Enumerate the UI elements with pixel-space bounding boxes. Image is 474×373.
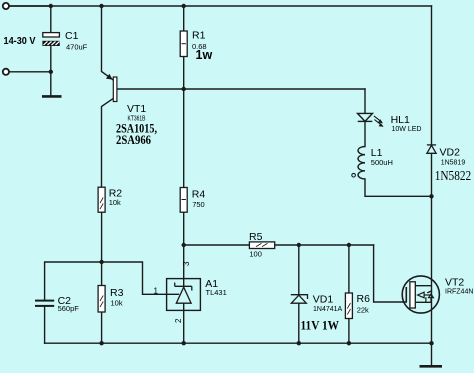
transistor VT1 (PNP) — [106, 74, 117, 102]
resistor R5 — [249, 242, 274, 249]
wire R3 top lead — [101, 262, 103, 286]
node R6 top — [347, 243, 351, 247]
LED arrows — [374, 116, 384, 127]
wire node to A1 ref pin staircase — [102, 262, 179, 294]
svg-text:22k: 22k — [357, 305, 369, 314]
wire gate drop — [374, 245, 407, 302]
wire R2 bottom lead — [101, 212, 103, 262]
wire R1 top lead — [183, 6, 185, 31]
svg-text:10k: 10k — [109, 198, 121, 207]
svg-text:VT1: VT1 — [127, 103, 146, 115]
ground (bottom right) — [420, 365, 443, 368]
wire VT1 collector lead — [102, 98, 114, 187]
node L1/VD2 — [429, 194, 433, 198]
svg-text:500uH: 500uH — [371, 158, 393, 167]
wire bottom rail — [45, 342, 432, 344]
node VT2 source bottom — [429, 341, 433, 345]
svg-text:R5: R5 — [249, 231, 263, 243]
terminal + input top — [3, 3, 9, 9]
node A1 bottom — [182, 341, 186, 345]
wire VD1 bottom lead — [298, 303, 300, 343]
node C1 top — [49, 4, 53, 8]
node VD1 bottom — [297, 341, 301, 345]
L1 winding start dot — [352, 173, 356, 177]
svg-text:TL431: TL431 — [206, 288, 227, 297]
node C1 bottom terminal — [49, 70, 53, 74]
wire R5 to gate corner — [275, 244, 374, 246]
inductor L1 — [358, 147, 365, 179]
capacitor C1 — [43, 33, 60, 46]
wire node to A1 cathode — [183, 245, 185, 286]
svg-text:1N5819: 1N5819 — [441, 159, 466, 166]
wire VT1 base line — [117, 88, 365, 90]
svg-text:750: 750 — [192, 200, 205, 209]
svg-text:R3: R3 — [110, 287, 124, 299]
svg-text:100: 100 — [249, 249, 262, 258]
wire bottom terminal to C1 line — [9, 71, 51, 73]
svg-text:14-30 V: 14-30 V — [4, 35, 36, 47]
svg-text:IRFZ44N: IRFZ44N — [445, 288, 473, 295]
wire ground stub bottom right — [431, 343, 433, 365]
wire R1 bottom lead — [183, 57, 185, 90]
svg-text:560pF: 560pF — [58, 304, 80, 313]
wire node to C2 — [45, 262, 102, 300]
wire VT1 emitter lead — [102, 6, 114, 80]
wire R6 top lead — [348, 245, 350, 293]
wire R3 bottom lead — [101, 312, 103, 343]
node R3 bottom — [99, 341, 103, 345]
svg-text:R1: R1 — [192, 30, 206, 42]
svg-text:1: 1 — [154, 287, 159, 296]
zener inside A1 — [175, 283, 192, 304]
node VT1 base / R1 — [182, 87, 186, 91]
wire HL1 to L1 — [364, 121, 366, 146]
wire L1 to right rail — [365, 179, 432, 196]
wire A1 anode to bottom rail — [183, 303, 185, 343]
svg-text:10W LED: 10W LED — [392, 126, 422, 133]
svg-text:C1: C1 — [65, 30, 79, 42]
svg-text:VT2: VT2 — [445, 276, 464, 288]
svg-text:R6: R6 — [357, 293, 371, 305]
capacitor C2 — [35, 300, 54, 307]
svg-text:HL1: HL1 — [391, 114, 410, 126]
wire R4 bottom lead to node — [183, 212, 185, 245]
zener VD1 — [291, 295, 308, 304]
svg-text:2: 2 — [174, 318, 183, 323]
resistor R3 — [98, 286, 105, 313]
resistor R4 — [180, 188, 187, 213]
svg-text:1N5822: 1N5822 — [435, 169, 472, 184]
wire VD1 top lead — [298, 245, 300, 294]
wire C1 bottom lead to ground — [50, 46, 52, 96]
node R1 top — [182, 4, 186, 8]
wire C2 bottom lead — [44, 307, 46, 343]
wire right rail through VT2 to bottom — [431, 196, 433, 343]
node R6 bottom — [347, 341, 351, 345]
svg-text:11V 1W: 11V 1W — [301, 318, 340, 333]
svg-text:R4: R4 — [192, 188, 206, 200]
svg-text:3: 3 — [182, 261, 191, 266]
svg-text:VD2: VD2 — [440, 146, 461, 158]
svg-text:1w: 1w — [196, 48, 213, 62]
svg-text:VD1: VD1 — [313, 293, 334, 305]
svg-text:10k: 10k — [111, 298, 123, 307]
node VD1 top — [297, 243, 301, 247]
terminal - input bottom — [3, 69, 9, 75]
wire top terminal to rail — [9, 5, 51, 7]
wire top rail — [9, 5, 432, 7]
resistor R1 — [180, 31, 187, 57]
wire mid rail R4 node to R5 — [184, 244, 250, 246]
svg-text:1N4741A: 1N4741A — [313, 306, 343, 313]
resistor R6 — [345, 293, 352, 319]
wire R4 top lead — [183, 89, 185, 188]
ground (input) — [42, 95, 62, 98]
wire VD2 to L1 node — [431, 153, 433, 196]
node R2/R3/C2 — [99, 260, 103, 264]
wire R6 bottom lead — [348, 319, 350, 344]
wire C1 top lead — [50, 6, 52, 33]
resistor R2 — [98, 187, 105, 212]
op-amp A1 TL431 box — [167, 279, 201, 311]
wire right rail upper (top rail to VD2) — [431, 6, 433, 144]
LED HL1 — [358, 113, 373, 121]
diode VD2 — [427, 145, 436, 153]
svg-text:2SA966: 2SA966 — [116, 132, 151, 147]
svg-text:470uF: 470uF — [66, 43, 88, 52]
node VT1 emitter rail — [99, 4, 103, 8]
wire HL1 top lead — [364, 89, 366, 113]
transistor VT2 MOSFET — [402, 276, 439, 313]
node R4/R5 — [182, 243, 186, 247]
